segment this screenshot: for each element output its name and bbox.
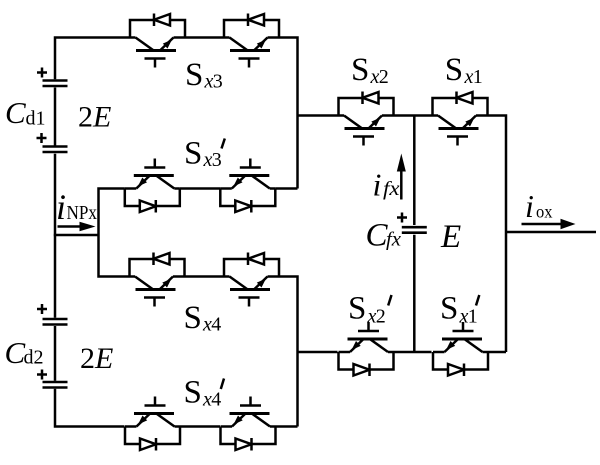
svg-text:Sx1: Sx1 — [440, 291, 478, 328]
svg-text:Cd1: Cd1 — [5, 95, 46, 130]
svg-text:iox: iox — [525, 188, 553, 224]
wire: top-left corner, +2E rail to Sx3 leg — [55, 38, 130, 80]
current arrow iox — [522, 219, 576, 229]
wire: flying-cap vertical upper — [413, 116, 416, 226]
wire: bottom-left corner, -2E rail to Sx4' leg — [55, 389, 125, 427]
svg-text:Sx2: Sx2 — [351, 52, 389, 88]
current arrow iNPx — [58, 222, 96, 232]
wire: NP vertical to Sx4 left — [99, 235, 130, 277]
svg-text:ifx: ifx — [373, 167, 400, 203]
wire: between Sx4 series IGBTs — [185, 275, 225, 278]
wire: between Sx2' and Sx1' — [394, 351, 432, 354]
polarity + of Cd1 lower — [37, 133, 47, 143]
wire: Sx1' to right output vertical — [488, 351, 506, 354]
capacitor Cd2 lower — [43, 382, 68, 388]
wire: Sx4 right to lower intermediate node vertical — [279, 277, 298, 427]
IGBT Sx1 with antiparallel diode — [433, 92, 488, 146]
capacitor Cfx — [402, 227, 427, 233]
IGBT Sx3 left with antiparallel diode — [130, 14, 185, 68]
svg-text:Sx3: Sx3 — [185, 57, 223, 93]
wire: between Sx4' series IGBTs — [180, 425, 220, 428]
svg-text:2E: 2E — [78, 101, 111, 134]
svg-text:2E: 2E — [80, 342, 113, 375]
wire: left rail between Cd2 capacitors — [54, 326, 57, 381]
svg-text:E: E — [440, 219, 461, 255]
prime mark of Sx2' — [388, 295, 391, 306]
polarity + of Cfx — [397, 213, 407, 223]
wire: Sx1 to right output vertical — [488, 116, 507, 353]
svg-text:Sx1: Sx1 — [445, 52, 483, 88]
polarity + of Cd1 upper — [37, 68, 47, 78]
wire: lower node tap to Sx2' — [298, 351, 338, 354]
wire: left rail middle segment — [54, 154, 57, 318]
wire: Sx3' right to upper node — [275, 187, 297, 190]
prime mark of Sx3' — [222, 139, 225, 149]
capacitor Cd2 upper — [43, 319, 68, 325]
capacitor Cd1 upper — [43, 81, 68, 87]
prime mark of Sx1' — [476, 295, 479, 306]
svg-text:Cd2: Cd2 — [5, 335, 44, 370]
IGBT Sx3' left with antiparallel diode — [125, 159, 180, 213]
polarity + of Cd2 lower — [37, 370, 47, 380]
wire: output line — [506, 231, 596, 234]
wire: between Sx2 and Sx1 — [394, 114, 433, 117]
IGBT Sx4' left with antiparallel diode — [125, 397, 180, 451]
wire: left rail between Cd1 capacitors — [54, 88, 57, 146]
IGBT Sx3' right with antiparallel diode — [220, 159, 275, 213]
current arrow ifx — [397, 154, 406, 200]
IGBT Sx3 right with antiparallel diode — [224, 14, 279, 68]
svg-text:iNPx: iNPx — [56, 187, 97, 227]
wire: neutral point to NP vertical — [54, 234, 99, 237]
polarity + of Cd2 upper — [37, 304, 47, 314]
wire: flying-cap vertical lower — [413, 235, 416, 352]
IGBT Sx1' with antiparallel diode — [433, 322, 488, 376]
wire: Sx3 output to upper intermediate node vertical — [279, 38, 298, 189]
IGBT Sx4' right with antiparallel diode — [221, 397, 276, 451]
capacitor Cd1 lower — [43, 147, 68, 153]
wire: between Sx3' series IGBTs — [180, 187, 221, 190]
svg-text:Sx2: Sx2 — [348, 291, 386, 328]
wire: upper node tap to Sx2 — [298, 114, 339, 117]
wire: Sx4' right to lower node — [276, 425, 298, 428]
wire: between Sx3 series IGBTs — [185, 36, 224, 39]
IGBT Sx2' with antiparallel diode — [339, 322, 394, 376]
svg-text:Sx3: Sx3 — [184, 136, 222, 172]
IGBT Sx4 right with antiparallel diode — [224, 253, 279, 307]
wire: Sx3' left to neutral vertical — [99, 189, 125, 236]
svg-text:Sx4: Sx4 — [184, 300, 222, 336]
svg-text:Cfx: Cfx — [366, 218, 402, 254]
IGBT Sx4 left with antiparallel diode — [130, 253, 185, 307]
IGBT Sx2 with antiparallel diode — [339, 92, 394, 146]
prime mark of Sx4' — [221, 379, 224, 390]
svg-text:Sx4: Sx4 — [184, 375, 222, 411]
